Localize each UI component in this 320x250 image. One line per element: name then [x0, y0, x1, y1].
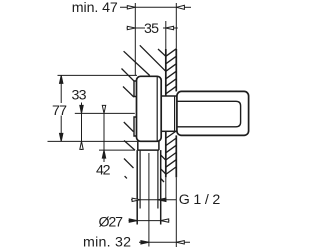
dim G1/2 — [131, 198, 176, 201]
svg-text:77: 77 — [52, 103, 67, 119]
collar edge at wall — [174, 96, 176, 131]
svg-text:min. 32: min. 32 — [83, 234, 131, 250]
dim 77 — [48, 75, 138, 141]
dim 33 — [75, 103, 135, 151]
svg-text:35: 35 — [144, 21, 159, 37]
wall inner face line — [165, 21, 167, 202]
dim Ø27 — [129, 219, 170, 222]
pipe centerline — [148, 153, 150, 247]
spout outer box — [177, 91, 249, 135]
valve body inner step line — [156, 77, 158, 142]
wall hatch lower band — [166, 131, 176, 174]
outlet tube through wall — [161, 96, 177, 131]
valve body — [137, 76, 162, 141]
dim min.32 — [139, 241, 190, 244]
svg-text:Ø27: Ø27 — [99, 214, 124, 230]
wall hatch upper band — [166, 49, 176, 94]
svg-text:min. 47: min. 47 — [72, 0, 118, 16]
spout inner contour — [177, 101, 240, 127]
wall outer face line — [175, 3, 177, 247]
dim 35 — [127, 26, 178, 29]
svg-text:42: 42 — [96, 163, 111, 179]
dim min.47 — [120, 3, 191, 75]
svg-text:33: 33 — [72, 87, 87, 103]
pipe outer lines (Ø27) — [137, 150, 161, 224]
rough wall hatch marks — [122, 45, 166, 182]
svg-text:G1/2: G1/2 — [179, 192, 221, 208]
pipe thread lines (G1/2) — [140, 150, 158, 208]
upper mounting tab — [134, 81, 137, 97]
dim 42 — [99, 105, 135, 162]
lower mounting tab — [134, 117, 137, 136]
neck below body — [138, 141, 159, 150]
